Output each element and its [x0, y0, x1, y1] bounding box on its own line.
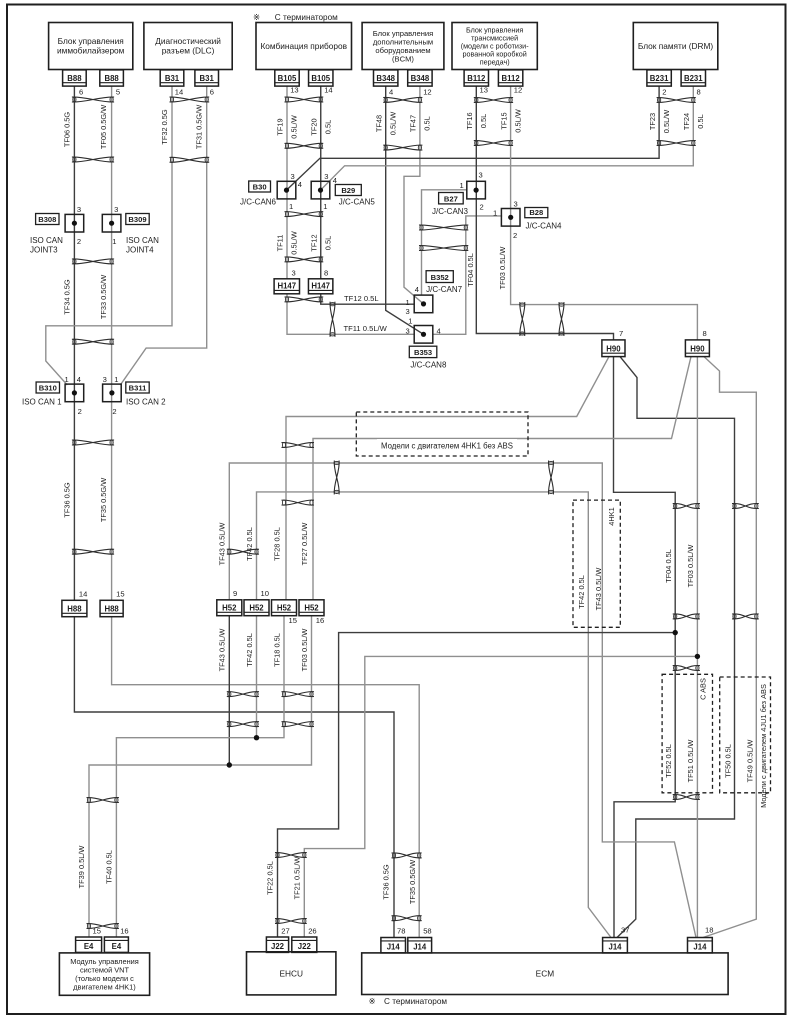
svg-text:JOINT4: JOINT4 — [126, 246, 154, 255]
svg-text:TF35 0.5G/W: TF35 0.5G/W — [99, 478, 108, 522]
svg-text:4: 4 — [415, 285, 419, 294]
svg-text:1: 1 — [408, 317, 412, 326]
svg-text:TF42 0.5L: TF42 0.5L — [577, 575, 586, 609]
svg-text:0.5L/W: 0.5L/W — [662, 110, 671, 133]
svg-text:TF48: TF48 — [374, 115, 383, 132]
svg-text:2: 2 — [112, 407, 116, 416]
svg-text:J/C-CAN7: J/C-CAN7 — [426, 285, 463, 294]
svg-text:TF19: TF19 — [276, 118, 285, 135]
svg-text:разъем (DLC): разъем (DLC) — [162, 46, 215, 56]
svg-text:13: 13 — [290, 86, 298, 95]
svg-text:TF39 0.5L/W: TF39 0.5L/W — [77, 846, 86, 889]
svg-text:78: 78 — [397, 927, 405, 936]
svg-text:0.5L: 0.5L — [323, 236, 332, 250]
svg-text:J/C-CAN3: J/C-CAN3 — [432, 207, 469, 216]
svg-text:TF52 0.5L: TF52 0.5L — [664, 744, 673, 778]
svg-text:TF05 0.5G/W: TF05 0.5G/W — [99, 105, 108, 149]
svg-text:TF11: TF11 — [276, 235, 285, 252]
svg-text:TF16: TF16 — [465, 112, 474, 129]
svg-text:TF31 0.5G/W: TF31 0.5G/W — [194, 105, 203, 149]
svg-text:B231: B231 — [684, 74, 703, 83]
svg-text:двигателем 4HK1): двигателем 4HK1) — [73, 983, 136, 992]
svg-text:B31: B31 — [165, 74, 180, 83]
svg-text:4: 4 — [437, 327, 441, 336]
svg-text:B112: B112 — [467, 74, 486, 83]
svg-text:J14: J14 — [413, 942, 427, 951]
svg-text:ISO CAN 1: ISO CAN 1 — [22, 398, 62, 407]
svg-text:TF34 0.5G: TF34 0.5G — [62, 279, 71, 315]
svg-text:3: 3 — [406, 307, 410, 316]
svg-text:1: 1 — [323, 202, 327, 211]
svg-text:B27: B27 — [444, 194, 458, 203]
svg-text:C ABS: C ABS — [699, 678, 708, 700]
svg-text:B88: B88 — [104, 74, 119, 83]
svg-text:Модели с двигателем 4JU1 без A: Модели с двигателем 4JU1 без ABS — [759, 684, 768, 808]
svg-text:1: 1 — [460, 181, 464, 190]
svg-text:14: 14 — [79, 590, 87, 599]
svg-text:27: 27 — [281, 927, 289, 936]
svg-text:※: ※ — [253, 12, 260, 22]
svg-text:B353: B353 — [414, 348, 432, 357]
svg-text:TF35 0.5G/W: TF35 0.5G/W — [408, 860, 417, 904]
svg-text:15: 15 — [289, 616, 297, 625]
svg-text:TF03 0.5L/W: TF03 0.5L/W — [300, 629, 309, 672]
svg-text:B28: B28 — [529, 208, 543, 217]
svg-text:Диагностический: Диагностический — [155, 36, 221, 46]
svg-text:14: 14 — [175, 88, 183, 97]
svg-text:TF21 0.5L/W: TF21 0.5L/W — [293, 857, 302, 900]
svg-text:6: 6 — [79, 88, 83, 97]
svg-text:TF06 0.5G: TF06 0.5G — [62, 112, 71, 148]
svg-text:6: 6 — [210, 88, 214, 97]
svg-text:B105: B105 — [311, 74, 330, 83]
svg-text:16: 16 — [316, 616, 324, 625]
svg-text:3: 3 — [291, 172, 295, 181]
svg-text:0.5L: 0.5L — [323, 120, 332, 134]
svg-text:TF36 0.5G: TF36 0.5G — [62, 482, 71, 518]
svg-text:13: 13 — [480, 86, 488, 95]
svg-text:TF22 0.5L: TF22 0.5L — [266, 861, 275, 895]
svg-text:2: 2 — [662, 88, 666, 97]
svg-text:TF43 0.5L/W: TF43 0.5L/W — [218, 629, 227, 672]
svg-text:B31: B31 — [200, 74, 215, 83]
svg-text:4: 4 — [77, 375, 81, 384]
svg-text:H147: H147 — [277, 282, 296, 291]
svg-text:TF18 0.5L: TF18 0.5L — [273, 633, 282, 667]
svg-text:TF50 0.5L: TF50 0.5L — [723, 744, 732, 778]
svg-text:TF27 0.5L/W: TF27 0.5L/W — [300, 523, 309, 566]
svg-text:B30: B30 — [253, 182, 267, 191]
svg-text:5: 5 — [116, 88, 120, 97]
svg-text:3: 3 — [114, 205, 118, 214]
svg-text:B348: B348 — [376, 74, 395, 83]
svg-text:TF32 0.5G: TF32 0.5G — [160, 109, 169, 145]
svg-text:58: 58 — [423, 927, 431, 936]
svg-text:2: 2 — [480, 203, 484, 212]
svg-text:J14: J14 — [608, 942, 622, 951]
svg-text:B231: B231 — [650, 74, 669, 83]
svg-text:TF40 0.5L: TF40 0.5L — [105, 850, 114, 884]
svg-text:J/C-CAN5: J/C-CAN5 — [339, 198, 376, 207]
svg-text:2: 2 — [513, 231, 517, 240]
svg-text:8: 8 — [703, 329, 707, 338]
svg-text:TF28 0.5L: TF28 0.5L — [273, 527, 282, 561]
svg-text:3: 3 — [292, 269, 296, 278]
svg-text:0.5L/W: 0.5L/W — [513, 109, 522, 132]
svg-text:Комбинация приборов: Комбинация приборов — [260, 41, 347, 51]
svg-text:TF23: TF23 — [648, 113, 657, 130]
svg-text:37: 37 — [621, 926, 629, 935]
svg-text:1: 1 — [112, 237, 116, 246]
svg-text:3: 3 — [514, 200, 518, 209]
svg-text:TF43 0.5L/W: TF43 0.5L/W — [594, 568, 603, 611]
svg-text:иммобилайзером: иммобилайзером — [57, 46, 125, 56]
svg-text:TF12 0.5L: TF12 0.5L — [344, 294, 379, 303]
svg-text:H52: H52 — [249, 604, 264, 613]
svg-text:B352: B352 — [431, 273, 449, 282]
svg-text:С терминатором: С терминатором — [275, 13, 338, 22]
svg-text:TF36 0.5G: TF36 0.5G — [382, 864, 391, 900]
svg-text:1: 1 — [65, 375, 69, 384]
svg-text:С терминатором: С терминатором — [384, 997, 447, 1006]
svg-text:15: 15 — [116, 590, 124, 599]
svg-text:J14: J14 — [387, 942, 401, 951]
svg-text:TF20: TF20 — [309, 118, 318, 135]
svg-text:9: 9 — [233, 589, 237, 598]
svg-text:J/C-CAN6: J/C-CAN6 — [240, 198, 277, 207]
svg-text:H52: H52 — [222, 604, 237, 613]
svg-text:J22: J22 — [271, 942, 285, 951]
svg-text:0.5L: 0.5L — [479, 114, 488, 128]
svg-text:TF33 0.5G/W: TF33 0.5G/W — [99, 275, 108, 319]
svg-text:TF42 0.5L: TF42 0.5L — [245, 527, 254, 561]
svg-text:TF04 0.5L: TF04 0.5L — [466, 253, 475, 287]
svg-text:ECM: ECM — [536, 969, 555, 979]
svg-text:ISO CAN 2: ISO CAN 2 — [126, 398, 166, 407]
svg-text:※: ※ — [369, 996, 376, 1006]
svg-text:7: 7 — [619, 329, 623, 338]
svg-text:ISO CAN: ISO CAN — [126, 236, 159, 245]
svg-text:3: 3 — [479, 171, 483, 180]
svg-text:3: 3 — [406, 327, 410, 336]
svg-text:B309: B309 — [128, 215, 146, 224]
svg-text:12: 12 — [514, 86, 522, 95]
svg-text:TF04 0.5L: TF04 0.5L — [664, 549, 673, 583]
svg-text:H88: H88 — [104, 605, 119, 614]
svg-text:B29: B29 — [341, 186, 355, 195]
svg-text:H90: H90 — [690, 344, 705, 353]
svg-text:B311: B311 — [129, 383, 148, 392]
svg-text:B308: B308 — [38, 215, 56, 224]
svg-text:2: 2 — [78, 407, 82, 416]
svg-text:J14: J14 — [693, 942, 707, 951]
svg-text:TF24: TF24 — [682, 113, 691, 130]
svg-text:TF11 0.5L/W: TF11 0.5L/W — [344, 324, 388, 333]
svg-text:26: 26 — [308, 927, 316, 936]
svg-text:(BCM): (BCM) — [392, 55, 414, 64]
svg-text:12: 12 — [423, 88, 431, 97]
svg-text:TF49 0.5L/W: TF49 0.5L/W — [745, 740, 754, 783]
svg-text:J22: J22 — [298, 942, 312, 951]
svg-text:15: 15 — [93, 927, 101, 936]
svg-text:EHCU: EHCU — [279, 968, 303, 978]
svg-text:3: 3 — [324, 172, 328, 181]
svg-text:2: 2 — [77, 237, 81, 246]
svg-text:8: 8 — [324, 269, 328, 278]
svg-text:JOINT3: JOINT3 — [30, 246, 58, 255]
svg-text:B88: B88 — [67, 74, 82, 83]
svg-text:0.5L: 0.5L — [696, 114, 705, 128]
svg-text:1: 1 — [493, 209, 497, 218]
svg-text:H52: H52 — [277, 604, 292, 613]
svg-text:TF47: TF47 — [409, 115, 418, 132]
svg-text:0.5L/W: 0.5L/W — [290, 231, 299, 254]
svg-text:4: 4 — [298, 180, 302, 189]
svg-text:Модели с двигателем 4HK1 без A: Модели с двигателем 4HK1 без ABS — [381, 442, 513, 451]
svg-text:TF42 0.5L: TF42 0.5L — [245, 633, 254, 667]
svg-text:E4: E4 — [84, 942, 94, 951]
svg-text:14: 14 — [324, 86, 332, 95]
svg-text:0.5L: 0.5L — [423, 116, 432, 130]
svg-text:TF51 0.5L/W: TF51 0.5L/W — [686, 740, 695, 783]
svg-text:18: 18 — [705, 926, 713, 935]
svg-text:1: 1 — [406, 298, 410, 307]
svg-text:H147: H147 — [311, 282, 330, 291]
svg-text:Блок памяти (DRM): Блок памяти (DRM) — [638, 41, 714, 51]
svg-text:TF03 0.5L/W: TF03 0.5L/W — [686, 545, 695, 588]
svg-text:1: 1 — [114, 375, 118, 384]
svg-text:E4: E4 — [112, 942, 122, 951]
svg-text:TF43 0.5L/W: TF43 0.5L/W — [218, 523, 227, 566]
svg-text:4HK1: 4HK1 — [607, 507, 616, 526]
svg-text:B348: B348 — [411, 74, 430, 83]
svg-text:ISO CAN: ISO CAN — [30, 236, 63, 245]
svg-text:H52: H52 — [304, 604, 319, 613]
svg-text:TF15: TF15 — [499, 112, 508, 129]
svg-text:J/C-CAN4: J/C-CAN4 — [526, 222, 563, 231]
svg-text:16: 16 — [120, 927, 128, 936]
svg-text:4: 4 — [389, 88, 393, 97]
svg-text:B310: B310 — [39, 383, 57, 392]
svg-text:10: 10 — [261, 589, 269, 598]
svg-text:0.5L/W: 0.5L/W — [290, 115, 299, 138]
svg-text:3: 3 — [77, 205, 81, 214]
svg-text:8: 8 — [697, 88, 701, 97]
svg-text:Блок управления: Блок управления — [58, 36, 124, 46]
svg-text:TF03 0.5L/W: TF03 0.5L/W — [498, 247, 507, 290]
svg-text:3: 3 — [103, 375, 107, 384]
svg-text:H90: H90 — [606, 344, 621, 353]
svg-text:передач): передач) — [480, 58, 510, 67]
svg-text:TF12: TF12 — [309, 234, 318, 251]
svg-text:J/C-CAN8: J/C-CAN8 — [410, 361, 447, 370]
svg-text:B112: B112 — [501, 74, 520, 83]
svg-text:1: 1 — [289, 202, 293, 211]
svg-text:4: 4 — [333, 176, 337, 185]
svg-text:0.5L/W: 0.5L/W — [388, 112, 397, 135]
svg-text:H88: H88 — [67, 605, 82, 614]
svg-text:B105: B105 — [278, 74, 297, 83]
